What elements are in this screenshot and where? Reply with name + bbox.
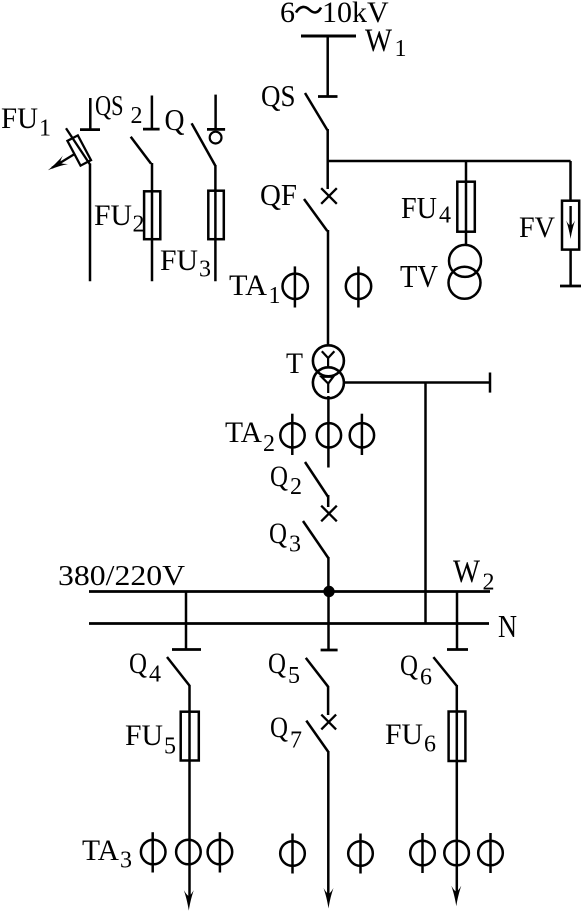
- svg-text:Q: Q: [129, 647, 147, 680]
- svg-text:5: 5: [164, 734, 176, 760]
- svg-text:2: 2: [290, 474, 302, 500]
- svg-text:3: 3: [199, 257, 211, 283]
- svg-text:FU: FU: [401, 190, 437, 225]
- svg-text:W: W: [453, 554, 481, 590]
- svg-text:5: 5: [288, 663, 300, 689]
- svg-text:6: 6: [280, 0, 295, 29]
- svg-text:7: 7: [290, 728, 302, 754]
- svg-text:QS: QS: [95, 90, 124, 122]
- svg-text:Q: Q: [269, 517, 287, 550]
- svg-text:2: 2: [483, 570, 495, 596]
- svg-text:2: 2: [133, 212, 145, 238]
- svg-text:2: 2: [263, 431, 275, 457]
- svg-text:6: 6: [424, 732, 436, 758]
- svg-text:TV: TV: [400, 258, 438, 294]
- svg-text:FU: FU: [160, 244, 198, 277]
- svg-text:380/220V: 380/220V: [58, 560, 185, 592]
- svg-text:FU: FU: [1, 102, 38, 135]
- svg-text:Q: Q: [268, 647, 286, 680]
- svg-text:3: 3: [289, 532, 301, 558]
- svg-text:Q: Q: [165, 102, 185, 137]
- svg-text:FU: FU: [94, 199, 132, 232]
- svg-text:Q: Q: [270, 460, 288, 493]
- svg-text:2: 2: [131, 103, 143, 129]
- svg-text:4: 4: [439, 203, 451, 229]
- svg-text:6: 6: [420, 665, 432, 691]
- svg-text:TA: TA: [229, 269, 267, 302]
- svg-text:Q: Q: [270, 711, 288, 744]
- svg-text:1: 1: [39, 116, 51, 142]
- svg-text:3: 3: [120, 848, 132, 874]
- svg-text:QS: QS: [261, 78, 296, 113]
- svg-text:Q: Q: [400, 649, 418, 682]
- svg-text:FU: FU: [125, 719, 163, 752]
- svg-text:W: W: [365, 23, 393, 59]
- svg-text:4: 4: [149, 662, 161, 688]
- svg-text:1: 1: [395, 36, 407, 62]
- svg-text:N: N: [498, 608, 517, 644]
- svg-text:TA: TA: [82, 834, 119, 867]
- svg-text:TA: TA: [225, 416, 262, 449]
- svg-text:FV: FV: [519, 211, 555, 244]
- svg-text:T: T: [286, 347, 303, 380]
- svg-text:QF: QF: [260, 177, 297, 212]
- svg-text:FU: FU: [385, 718, 423, 751]
- svg-text:1: 1: [269, 283, 281, 309]
